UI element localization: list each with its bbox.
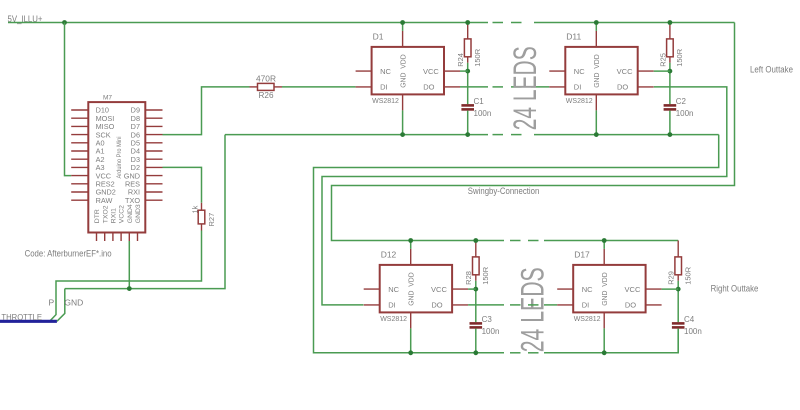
svg-text:150R: 150R: [683, 266, 692, 285]
junction D11 VCC / R25 / C2: [668, 69, 673, 74]
wire to D17 DI: [544, 304, 557, 306]
bus THROTTLE: [0, 320, 57, 323]
svg-text:R28: R28: [464, 271, 473, 285]
junction D1 VDD: [400, 20, 405, 25]
pin DO of D17: [646, 304, 662, 306]
wire 5V to Arduino VCC pin: [65, 23, 72, 176]
pin VDD of D17: [603, 249, 605, 265]
wire R28 to VCC junction: [475, 281, 477, 289]
junction D12 GND: [408, 350, 413, 355]
resistor R28 150R: [473, 241, 480, 281]
svg-text:THROTTLE: THROTTLE: [1, 312, 42, 322]
pin A2 of M7: [71, 158, 88, 160]
svg-text:D1: D1: [373, 31, 384, 41]
pin GND of D1: [402, 94, 404, 110]
svg-text:NC: NC: [388, 285, 399, 294]
resistor R29 150R: [675, 241, 682, 281]
junction D17 VDD: [602, 238, 607, 243]
pin NC of D1: [356, 70, 372, 72]
pin A1 of M7: [71, 150, 88, 152]
pin NC of D17: [557, 288, 573, 290]
svg-text:WS2812: WS2812: [574, 316, 601, 323]
pin D6 of M7: [145, 134, 162, 136]
wire D1 VCC to junction: [460, 70, 468, 72]
wire GND rail row1 (left part): [225, 134, 488, 136]
junction D17 GND: [602, 350, 607, 355]
junction 5V to Arduino: [62, 20, 67, 25]
svg-text:R25: R25: [658, 53, 667, 67]
wire DO row1 dash: [493, 86, 504, 88]
wire GND rail row1 dash: [493, 134, 504, 136]
wire VCC junction to C4: [677, 289, 679, 322]
resistor R26 470R: [250, 83, 283, 90]
pin GND of M7: [145, 175, 162, 177]
wire C3 to GND rail: [475, 329, 477, 353]
wire row2 GND rail dash: [528, 352, 539, 354]
svg-text:DI: DI: [380, 83, 388, 92]
svg-text:GND3: GND3: [135, 204, 142, 223]
svg-text:150R: 150R: [473, 48, 482, 67]
capacitor C4 100n: [672, 323, 685, 327]
wire VDD wrap-around to second row rail: [332, 23, 735, 241]
pin RAW of M7: [71, 199, 88, 201]
svg-text:VCC: VCC: [625, 285, 641, 294]
capacitor C2 100n: [664, 105, 677, 109]
pin RES2 of M7: [71, 183, 88, 185]
pin RES of M7: [145, 183, 162, 185]
IC D17 WS2812: [573, 265, 645, 313]
pin DI of D11: [549, 86, 565, 88]
pin D9 of M7: [145, 109, 162, 111]
wire GND pin of D1 to GND rail: [402, 110, 404, 134]
pin D10 of M7: [71, 109, 88, 111]
junction D1 GND: [400, 132, 405, 137]
svg-text:NC: NC: [574, 67, 585, 76]
svg-text:P: P: [49, 298, 55, 308]
resistor R24 150R: [464, 23, 471, 63]
pin DO of D11: [638, 86, 654, 88]
wire C1 to GND rail: [467, 111, 469, 135]
svg-text:TXO: TXO: [125, 196, 140, 205]
capacitor C3 100n: [470, 323, 483, 327]
wire top rail dash: [511, 22, 522, 24]
wire 5V top rail (right part): [534, 22, 735, 24]
junction R24 top: [465, 20, 470, 25]
pin TXO2 of M7: [104, 233, 106, 242]
junction D1 VCC / R24 / C1: [465, 69, 470, 74]
pin VDD of D11: [595, 31, 597, 47]
svg-text:VCC: VCC: [423, 67, 439, 76]
junction D12 VCC / R28 / C3: [473, 287, 478, 292]
pin VCC of M7: [71, 175, 88, 177]
svg-text:NC: NC: [380, 67, 391, 76]
pin D3 of M7: [145, 158, 162, 160]
svg-text:D12: D12: [381, 249, 397, 259]
svg-text:GND VDD: GND VDD: [600, 272, 609, 306]
wire GND pin of D17 to GND rail: [603, 328, 605, 352]
svg-text:DI: DI: [574, 83, 582, 92]
junction C3 bottom: [473, 350, 478, 355]
wire R25 to VCC junction: [669, 63, 671, 71]
pin DI of D1: [356, 86, 372, 88]
svg-text:RXI1: RXI1: [111, 208, 118, 223]
wire DO row2 dash: [528, 304, 539, 306]
svg-text:VCC2: VCC2: [119, 205, 126, 223]
svg-text:R26: R26: [259, 91, 275, 100]
resistor R27 1k: [198, 203, 205, 231]
svg-text:R29: R29: [667, 271, 676, 285]
svg-text:100n: 100n: [474, 109, 492, 118]
wire GND to row1 GND rail: [65, 135, 225, 289]
svg-text:C3: C3: [482, 315, 493, 324]
pin VCC of D12: [452, 288, 468, 290]
svg-text:WS2812: WS2812: [566, 98, 593, 105]
pin DO of D12: [452, 304, 468, 306]
wire GND rail row1 (right part): [534, 134, 719, 136]
wire R27 to throttle bus (net P): [50, 231, 202, 322]
pin SCK of M7: [71, 134, 88, 136]
pin NC of D11: [549, 70, 565, 72]
wire Arduino GND4 pin to GND net: [128, 241, 130, 289]
svg-text:100n: 100n: [684, 327, 702, 336]
capacitor C1 100n: [461, 105, 474, 109]
junction GND4: [127, 286, 132, 291]
wire GND wrap-around to second row rail: [314, 135, 719, 353]
pin DI of D12: [364, 304, 380, 306]
pin VCC of D11: [638, 70, 654, 72]
svg-text:Arduino Pro Mini: Arduino Pro Mini: [116, 136, 123, 178]
pin RXI1 of M7: [112, 233, 114, 242]
pin VDD of D12: [410, 249, 412, 265]
wire D12 DO right: [468, 304, 504, 306]
wire D11 DO to D12 DI (swingby): [322, 87, 727, 305]
IC D11 WS2812: [565, 47, 637, 95]
junction D12 VDD: [408, 238, 413, 243]
pin VCC of D1: [444, 70, 460, 72]
svg-text:TXO2: TXO2: [102, 205, 109, 223]
pin D2 of M7: [145, 166, 162, 168]
pin RXI of M7: [145, 191, 162, 193]
svg-text:GND: GND: [64, 298, 83, 308]
wire row2 VDD rail dash: [528, 240, 539, 242]
wire VCC junction to C2: [669, 71, 671, 104]
pin D7 of M7: [145, 125, 162, 127]
svg-text:DI: DI: [388, 301, 396, 310]
pin A3 of M7: [71, 166, 88, 168]
svg-text:GND4: GND4: [127, 204, 134, 223]
wire R29 to VCC junction: [677, 281, 679, 289]
pin DTR of M7: [96, 233, 98, 242]
wire row2 VDD rail (right part): [544, 240, 678, 242]
svg-text:DO: DO: [617, 83, 628, 92]
pin GND2 of M7: [71, 191, 88, 193]
wire GND rail row1 dash: [511, 134, 522, 136]
wire VCC junction to C3: [475, 289, 477, 322]
svg-text:DO: DO: [423, 83, 434, 92]
svg-text:WS2812: WS2812: [380, 316, 407, 323]
wire row2 GND rail dash: [510, 352, 521, 354]
svg-text:150R: 150R: [481, 266, 490, 285]
resistor R25 150R: [667, 23, 674, 63]
svg-text:RAW: RAW: [96, 196, 113, 205]
svg-text:150R: 150R: [675, 48, 684, 67]
wire DO row1 dash: [511, 86, 522, 88]
wire 5V_ILLU+ top rail (left solid part): [8, 22, 488, 24]
pin MOSI of M7: [71, 117, 88, 119]
wire D17 VCC to junction: [662, 288, 679, 290]
IC D1 WS2812: [372, 47, 444, 95]
junction D11 GND: [594, 132, 599, 137]
pin GND3 of M7: [137, 233, 139, 242]
svg-text:R24: R24: [456, 53, 465, 67]
svg-text:Right Outtake: Right Outtake: [711, 284, 759, 294]
svg-text:D11: D11: [566, 31, 581, 41]
pin VCC2 of M7: [120, 233, 122, 242]
svg-text:M7: M7: [103, 95, 112, 102]
wire R24 to VCC junction: [467, 63, 469, 71]
pin TXO of M7: [145, 199, 162, 201]
pin D5 of M7: [145, 142, 162, 144]
junction R28 top: [473, 238, 478, 243]
svg-text:DI: DI: [582, 301, 590, 310]
svg-text:C4: C4: [684, 315, 695, 324]
wire D12 VCC to junction: [468, 288, 476, 290]
pin D8 of M7: [145, 117, 162, 119]
junction R25 top: [668, 20, 673, 25]
svg-text:C2: C2: [676, 97, 687, 106]
pin MISO of M7: [71, 125, 88, 127]
wire GND pin of D11 to GND rail: [595, 110, 597, 134]
wire D11 VCC to junction: [654, 70, 670, 72]
pin GND of D12: [410, 312, 412, 328]
svg-text:GND VDD: GND VDD: [398, 54, 407, 88]
svg-text:DO: DO: [625, 301, 636, 310]
svg-text:GND VDD: GND VDD: [592, 54, 601, 88]
svg-text:NC: NC: [582, 285, 593, 294]
wire DO row2 dash: [510, 304, 521, 306]
wire C2 to GND rail: [669, 111, 671, 135]
svg-text:D17: D17: [574, 249, 590, 259]
pin GND of D11: [595, 94, 597, 110]
svg-text:1k: 1k: [191, 205, 200, 213]
pin NC of D12: [364, 288, 380, 290]
wire D1 DO right: [460, 86, 488, 88]
pin DI of D17: [557, 304, 573, 306]
wire top rail dash: [493, 22, 504, 24]
wire Arduino D6 to R26: [163, 87, 250, 135]
pin DO of D1: [444, 86, 460, 88]
svg-text:100n: 100n: [676, 109, 694, 118]
svg-text:DO: DO: [431, 301, 442, 310]
svg-text:WS2812: WS2812: [372, 98, 399, 105]
wire GND from throttle bus: [57, 289, 65, 322]
svg-text:Code: AfterburnerEF*.ino: Code: AfterburnerEF*.ino: [25, 249, 112, 259]
svg-text:470R: 470R: [256, 74, 276, 83]
svg-text:Left Outtake: Left Outtake: [750, 65, 793, 75]
svg-text:24 LEDS: 24 LEDS: [515, 267, 551, 352]
wire row2 VDD rail dash: [510, 240, 521, 242]
junction D11 VDD: [594, 20, 599, 25]
svg-text:C1: C1: [474, 97, 485, 106]
pin D4 of M7: [145, 150, 162, 152]
wire VCC junction to C1: [467, 71, 469, 104]
junction D17 VCC / R29 / C4: [676, 287, 681, 292]
svg-text:100n: 100n: [482, 327, 500, 336]
pin A0 of M7: [71, 142, 88, 144]
IC D12 WS2812: [380, 265, 452, 313]
pin GND4 of M7: [128, 233, 130, 242]
svg-text:GND VDD: GND VDD: [407, 272, 416, 306]
wire to D11 DI: [531, 86, 549, 88]
svg-text:DTR: DTR: [94, 209, 101, 223]
pin GND of D17: [603, 312, 605, 328]
wire C4 to GND rail: [677, 329, 679, 353]
junction C1 bottom: [465, 132, 470, 137]
pin VDD of D1: [402, 31, 404, 47]
wire row2 GND rail (right part) up to C4: [544, 329, 678, 353]
module M7 Arduino Pro Mini: [88, 102, 145, 232]
svg-text:24 LEDS: 24 LEDS: [507, 46, 543, 130]
svg-text:Swingby-Connection: Swingby-Connection: [468, 186, 540, 196]
svg-text:VCC: VCC: [617, 67, 633, 76]
svg-text:R27: R27: [207, 213, 216, 227]
wire Arduino D2 to R27: [163, 167, 202, 202]
wire R26 to D1 DI: [282, 86, 356, 88]
svg-text:VCC: VCC: [431, 285, 447, 294]
junction C2 bottom: [668, 132, 673, 137]
wire GND pin of D12 to GND rail: [410, 328, 412, 352]
pin VCC of D17: [646, 288, 662, 290]
